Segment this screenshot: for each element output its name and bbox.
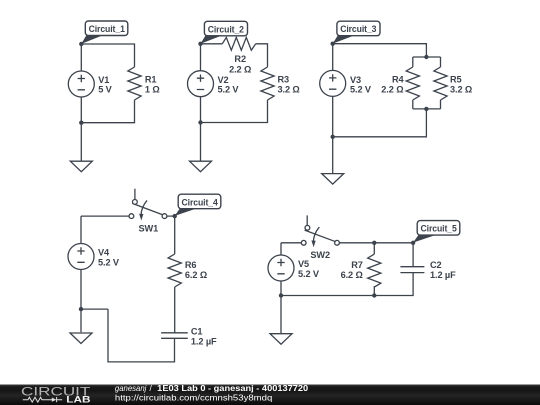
svg-text:C1: C1 (191, 326, 203, 336)
svg-text:V1: V1 (98, 75, 109, 85)
svg-text:R4: R4 (392, 75, 405, 85)
svg-text:1.2 µF: 1.2 µF (191, 336, 217, 346)
svg-text:Circuit_3: Circuit_3 (340, 24, 376, 34)
svg-text:http://circuitlab.com/ccmnsh53: http://circuitlab.com/ccmnsh53y8mdq (115, 392, 273, 402)
svg-text:R1: R1 (145, 74, 157, 84)
svg-text:5.2 V: 5.2 V (298, 269, 320, 279)
svg-text:Circuit_2: Circuit_2 (208, 24, 244, 34)
svg-text:R6: R6 (185, 260, 197, 270)
svg-text:V2: V2 (218, 75, 229, 85)
svg-text:V4: V4 (98, 248, 110, 258)
svg-text:V5: V5 (298, 259, 309, 269)
svg-text:SW2: SW2 (310, 250, 330, 260)
svg-text:Circuit_4: Circuit_4 (182, 197, 219, 207)
svg-text:3.2 Ω: 3.2 Ω (278, 84, 300, 94)
svg-text:3.2 Ω: 3.2 Ω (450, 85, 472, 95)
svg-text:6.2 Ω: 6.2 Ω (185, 270, 207, 280)
svg-text:2.2 Ω: 2.2 Ω (381, 85, 403, 95)
svg-text:R3: R3 (278, 74, 290, 84)
svg-text:LAB: LAB (66, 395, 90, 405)
svg-text:C2: C2 (430, 260, 442, 270)
svg-text:6.2 Ω: 6.2 Ω (341, 270, 363, 280)
svg-text:1.2 µF: 1.2 µF (430, 270, 456, 280)
svg-text:R7: R7 (351, 260, 363, 270)
svg-text:R5: R5 (450, 75, 462, 85)
svg-text:2.2 Ω: 2.2 Ω (229, 64, 251, 74)
svg-text:V3: V3 (350, 75, 361, 85)
svg-text:5 V: 5 V (98, 84, 112, 94)
svg-text:1 Ω: 1 Ω (145, 84, 160, 94)
svg-text:R2: R2 (234, 54, 246, 64)
svg-text:SW1: SW1 (139, 223, 159, 233)
svg-text:5.2 V: 5.2 V (350, 84, 372, 94)
svg-text:Circuit_1: Circuit_1 (89, 24, 125, 34)
svg-text:Circuit_5: Circuit_5 (421, 224, 457, 234)
svg-text:5.2 V: 5.2 V (218, 84, 240, 94)
svg-text:5.2 V: 5.2 V (98, 258, 120, 268)
